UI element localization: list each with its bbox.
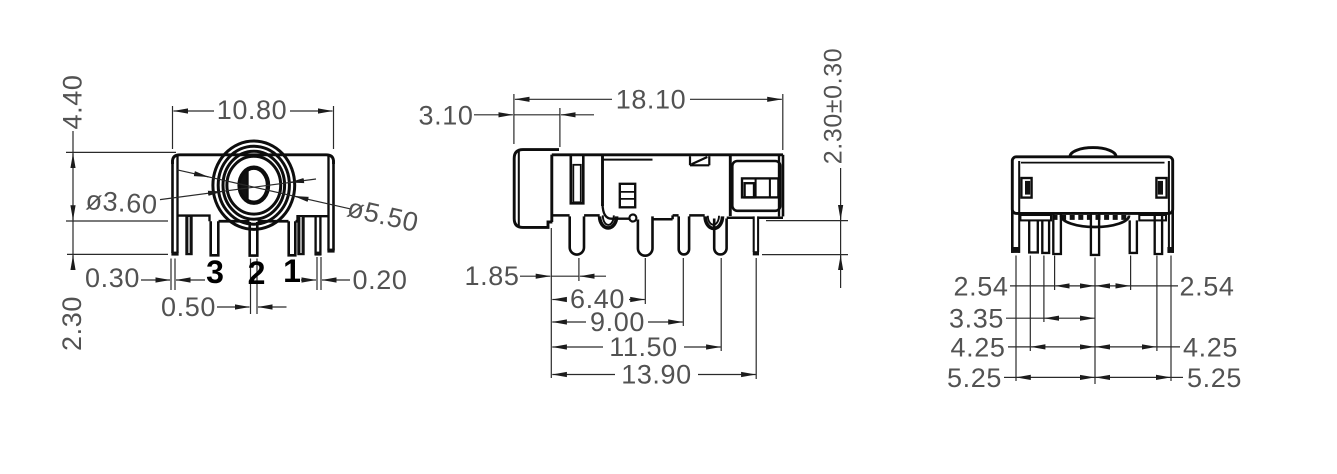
svg-text:5.25: 5.25: [947, 363, 1002, 393]
arrow up to body top: [72, 154, 74, 168]
divider line: [601, 155, 604, 206]
body right edge inner line: [327, 156, 329, 251]
dim 3.35 plain line: [1006, 317, 1044, 319]
ladder rect: [620, 184, 635, 208]
pin 5 bottom cap: [753, 251, 759, 255]
right leg outer line: [1171, 210, 1174, 253]
dim 18.10 line with arrows: [515, 98, 612, 100]
dim 1.85 arrow right with tail: [580, 275, 606, 277]
right leg inner line: [1168, 161, 1170, 253]
pin5 center ext line: [755, 258, 757, 379]
dim 2.30pm ext top: [766, 220, 848, 222]
dim 9.00 line right arrow: [648, 321, 683, 323]
dim 2.54R plain line: [1131, 285, 1179, 287]
body bottom edge middle segments: [210, 220, 298, 223]
dim 4.25R plain line: [1157, 346, 1180, 348]
svg-text:0.20: 0.20: [353, 265, 408, 295]
body right edge outer: [782, 155, 785, 217]
dim 4.40 ext line bottom: [66, 220, 168, 222]
svg-text:3.10: 3.10: [419, 100, 474, 130]
center pin: [1091, 215, 1099, 255]
body right edge outer line: [332, 160, 335, 251]
sleeve outline: [514, 150, 559, 228]
dim 6.40 line right arrow: [629, 299, 645, 301]
narrow pin pair right: [316, 216, 321, 255]
bottom dome arc: [1061, 216, 1129, 228]
dim 3.35 arrows line: [1044, 317, 1094, 319]
pin 2 U-shape: [638, 216, 653, 255]
chain ext line leg right: [1170, 256, 1172, 382]
dim 2.30pm arrow up: [840, 256, 842, 268]
right block left edge: [729, 155, 732, 216]
dim 10.80 line with arrows: [174, 110, 215, 112]
boss dome 2 outer: [705, 216, 722, 228]
dia5.50 arrow left: [195, 174, 209, 177]
svg-text:3: 3: [206, 254, 224, 290]
dim 10.80 ext line left: [172, 106, 174, 149]
chord line of hole: [246, 171, 248, 201]
body left edge: [550, 155, 553, 222]
fillet curve bottom of mid block: [603, 204, 630, 219]
body left edge inner line: [176, 156, 178, 253]
svg-text:4.25: 4.25: [1183, 332, 1238, 362]
chain ext line leg left: [1015, 256, 1017, 382]
chain ext line center: [1094, 258, 1096, 385]
dark pin left (pin 3): [185, 215, 192, 255]
body top edge: [552, 153, 783, 156]
left inner dark bar: [1025, 181, 1030, 195]
dim 0.20 arrow left: [301, 279, 316, 281]
svg-text:5.25: 5.25: [1187, 363, 1242, 393]
dim 10.80 ext line right: [333, 106, 335, 149]
dim 13.90 line right arrow: [698, 374, 756, 376]
dim 5.25R arrows line: [1096, 376, 1171, 378]
dim 3.10 middle line: [514, 114, 560, 116]
pin 1 U-shape: [570, 216, 584, 254]
svg-text:2.54: 2.54: [954, 272, 1009, 302]
dim 9.00 line left arrow: [552, 321, 586, 323]
svg-text:0.50: 0.50: [161, 292, 216, 322]
right inner dark bar: [1158, 181, 1163, 195]
arrow down to body bottom: [72, 206, 74, 220]
dim 5.25L arrows line: [1016, 376, 1094, 378]
body right edge inner: [778, 156, 780, 216]
body top edge inner double: [603, 159, 653, 161]
dim 2.30pm ext bottom: [762, 254, 848, 256]
inner hole circle: [240, 168, 268, 203]
concentric ring r28: [227, 156, 281, 214]
right block small square: [745, 183, 754, 197]
svg-text:3.35: 3.35: [949, 303, 1004, 333]
dim 0.50 arrow left: [217, 306, 250, 308]
dark pin right (pin 1): [297, 215, 304, 255]
dim 2.54L arrows line: [1055, 285, 1094, 287]
boss dome 1 inner: [603, 215, 614, 225]
dim 3.10 arrow left: [474, 114, 513, 116]
right block cells rect: [742, 178, 778, 197]
dim 2.54R arrows line: [1096, 285, 1131, 287]
svg-text:10.80: 10.80: [217, 95, 288, 125]
arrow up to pin bottom: [72, 256, 74, 269]
pin 4 U-shape: [714, 219, 726, 255]
dome on top: [1070, 148, 1116, 157]
chain ext line pinL4: [1054, 256, 1056, 291]
svg-text:1.85: 1.85: [465, 261, 520, 291]
boss dome 2 inner: [708, 216, 719, 225]
dim 0.30 ext lines: [170, 259, 172, 291]
chain ext line pinL2: [1029, 256, 1031, 352]
concentric ring r42.5: [213, 141, 295, 229]
chain ext line pinR2: [1130, 256, 1132, 291]
body outline: [1012, 157, 1172, 214]
dia3.60 arrow right: [290, 181, 305, 183]
svg-text:2.30: 2.30: [57, 296, 87, 351]
concentric ring r37.5: [218, 146, 289, 224]
dim 4.25R arrows line: [1096, 346, 1157, 348]
right block cell divider 2: [769, 178, 771, 197]
inner slot outline: [571, 156, 584, 203]
dim 0.30 arrow right with tail: [176, 279, 205, 281]
dim 18.10 ext left: [513, 94, 515, 144]
dim 6.40 line left arrow: [552, 299, 566, 301]
pin3 center ext line: [682, 258, 684, 326]
dim 1.85 arrow left: [520, 275, 550, 277]
white pin right inner: [289, 221, 296, 255]
right block cell divider 1: [755, 178, 757, 197]
dim 0.30 arrow left: [141, 279, 170, 281]
pin left 3: [1042, 220, 1049, 253]
svg-text:1: 1: [283, 253, 301, 289]
dim 18.10 ext right: [782, 94, 784, 150]
serration dashes: [1053, 215, 1131, 220]
hook circle contact end: [629, 215, 636, 222]
svg-text:4.25: 4.25: [951, 332, 1006, 362]
right block rounded rect: [732, 161, 780, 211]
wedge mark on top edge: [690, 156, 709, 165]
left leg bottom cap: [171, 252, 178, 256]
svg-text:18.10: 18.10: [616, 85, 687, 115]
body bottom step right: [298, 216, 329, 221]
dim 11.50 line left arrow: [552, 346, 603, 348]
concentric ring r32.6: [223, 151, 285, 219]
ladder internal lines: [620, 192, 635, 199]
left inner rect: [1021, 178, 1031, 198]
dim 13.90 line left arrow: [552, 374, 615, 376]
dim 5.25L plain line: [1004, 376, 1016, 378]
svg-text:11.50: 11.50: [609, 332, 678, 362]
dim 2.30 ext line bottom: [67, 253, 168, 255]
body top edge with rounded corners: [173, 155, 334, 164]
svg-text:4.40: 4.40: [58, 75, 88, 130]
chain ext line pinR3: [1156, 256, 1158, 352]
pin2 center ext line: [644, 258, 646, 304]
pin 5 thin pin lines: [754, 216, 758, 252]
dim 0.50 ext lines: [250, 259, 252, 315]
dark crescent inside hole: [241, 172, 248, 199]
dia5.50 arrow right: [294, 196, 308, 199]
pin1 center ext line: [578, 258, 580, 281]
dim 5.25R plain line: [1171, 376, 1183, 378]
dim 3.10 arrow right with tail: [561, 114, 594, 116]
dim 1.85 middle line: [551, 275, 578, 277]
pin 3 U-shape: [679, 216, 689, 254]
left vertical dimension line: [72, 131, 74, 270]
leader line dia 3.60: [160, 179, 316, 200]
leader line dia 5.50: [177, 170, 350, 209]
dim 0.20 arrow right with tail: [322, 279, 350, 281]
left leg outer line: [1011, 210, 1014, 253]
pin left 2: [1029, 220, 1038, 252]
inner slot inner rect: [573, 165, 581, 203]
pin left 4: [1053, 215, 1061, 255]
body bottom edge segments: [552, 215, 783, 219]
chain ext line pinL3: [1043, 256, 1045, 323]
right inner rect: [1156, 178, 1166, 198]
right leg cap: [1167, 247, 1174, 253]
dim 4.25L plain line: [1008, 346, 1031, 348]
svg-text:ø3.60: ø3.60: [85, 185, 159, 220]
svg-text:0.30: 0.30: [85, 263, 140, 293]
pin4 center ext line: [720, 258, 722, 351]
svg-text:2: 2: [248, 255, 266, 291]
left skirt step: [1020, 215, 1051, 220]
body bottom step left: [178, 216, 210, 222]
dim 0.20 ext lines: [316, 257, 318, 290]
svg-text:2.54: 2.54: [1180, 272, 1235, 302]
left leg inner line: [1018, 161, 1020, 253]
white pin left inner: [211, 221, 219, 255]
right skirt step: [1139, 215, 1166, 220]
svg-text:2.30±0.30: 2.30±0.30: [820, 48, 848, 164]
right leg bottom cap: [327, 249, 334, 253]
chain left reference ext line: [550, 228, 552, 378]
svg-text:13.90: 13.90: [621, 360, 692, 390]
dim 4.40 ext line top: [66, 151, 176, 153]
dim 2.30pm arrow down: [840, 207, 842, 220]
left leg cap: [1011, 247, 1020, 253]
sleeve inner left line: [518, 152, 520, 226]
center pin (pin 2): [250, 222, 258, 256]
dia3.60 arrow left: [208, 191, 223, 193]
dim 3.10 ext right: [559, 108, 561, 147]
pin right 2: [1130, 220, 1137, 253]
boss dome 1 outer: [600, 216, 617, 228]
body left edge outer line: [171, 160, 174, 253]
dim 11.50 line right arrow: [684, 346, 721, 348]
dim 4.25L arrows line: [1031, 346, 1095, 348]
dim 2.30pm vertical line: [840, 168, 842, 288]
dim 0.50 arrow right with tail: [258, 306, 287, 308]
inner top line: [1021, 162, 1165, 164]
dim 2.54L plain line: [1010, 285, 1055, 287]
pin right 3: [1155, 215, 1162, 255]
